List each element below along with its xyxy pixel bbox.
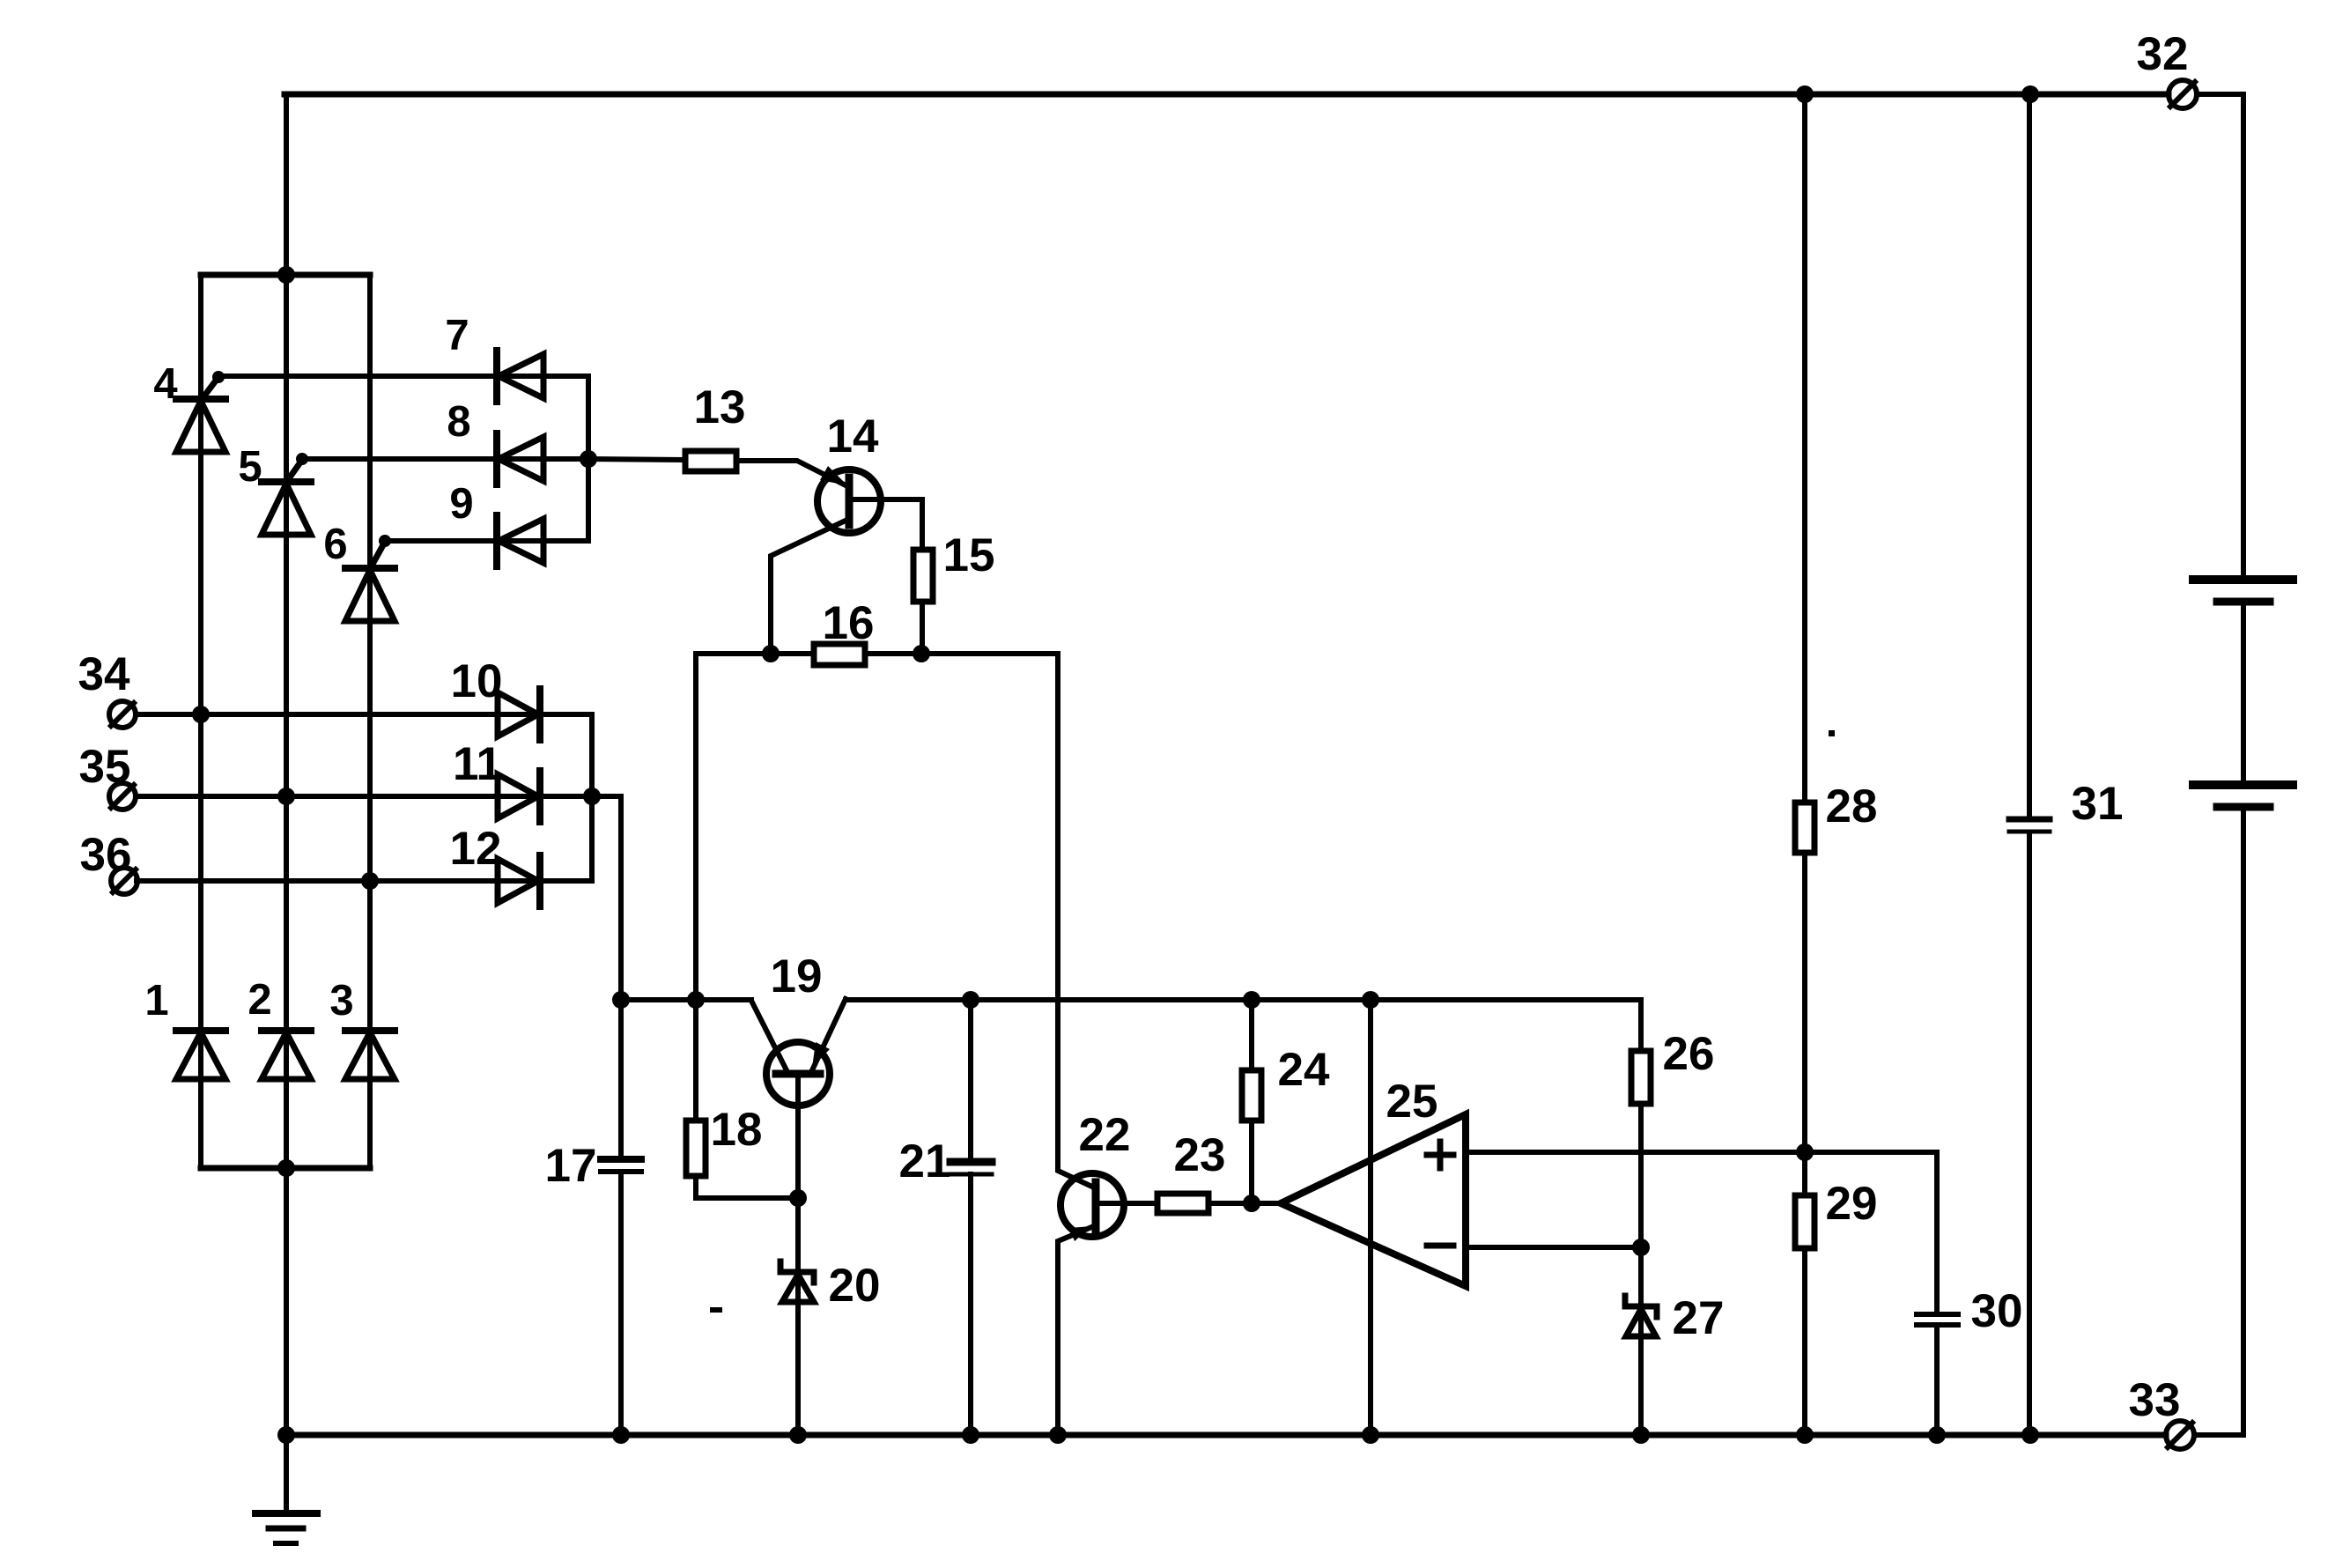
wire bridge top rail bbox=[201, 272, 370, 278]
wire transistor 19 emitter / zener 20 branch bbox=[795, 1074, 801, 1435]
node top bus / resistor 28 bbox=[1796, 85, 1814, 103]
node collector rail / capacitor 21 branch bbox=[962, 991, 979, 1009]
node collector rail / cap 17 branch bbox=[612, 991, 630, 1009]
wire gate row of SCR 6 to diode 9 bbox=[385, 538, 588, 544]
svg-text:12: 12 bbox=[450, 823, 502, 875]
svg-text:21: 21 bbox=[899, 1135, 951, 1187]
svg-text:23: 23 bbox=[1174, 1129, 1226, 1181]
resistor 18 bbox=[686, 1121, 706, 1176]
wire transistor 22 emitter drop to bottom bus bbox=[1058, 1225, 1096, 1435]
svg-text:27: 27 bbox=[1673, 1292, 1725, 1344]
node collector rail / op-amp supply drop bbox=[1362, 991, 1379, 1009]
node collector rail / resistor 24 branch bbox=[1243, 991, 1260, 1009]
wire bottom negative bus bbox=[286, 1432, 2166, 1439]
wire terminal 36 row to diode 12 bbox=[137, 878, 592, 884]
svg-text:8: 8 bbox=[447, 398, 470, 446]
wire resistor 23 to op-amp node bbox=[1208, 1201, 1281, 1206]
wire capacitor 31 branch from top bus bbox=[2027, 94, 2032, 817]
wire capacitor 31 lower lead bbox=[2027, 834, 2032, 1435]
svg-text:25: 25 bbox=[1386, 1076, 1438, 1128]
svg-text:10: 10 bbox=[451, 655, 503, 707]
wire capacitor 30 lower lead bbox=[1934, 1327, 1940, 1435]
wire terminal 32 to battery branch bbox=[2197, 94, 2243, 575]
node bottom bus / capacitor 31 bbox=[2021, 1426, 2039, 1444]
node bottom bus / zener 27 bbox=[1632, 1426, 1650, 1444]
svg-text:19: 19 bbox=[771, 950, 823, 1002]
node diode bus row 8 bbox=[580, 450, 597, 468]
op-amp 25 bbox=[1281, 1114, 1466, 1286]
terminal 36 bbox=[111, 868, 137, 894]
wire bridge negative drop bbox=[284, 1168, 289, 1435]
terminal 34 bbox=[109, 701, 136, 728]
wire battery negative to bottom bus bbox=[2194, 811, 2243, 1435]
zener diode 20 bbox=[780, 1261, 814, 1302]
battery cell lower bbox=[2193, 785, 2293, 807]
wire node to resistor 13 bbox=[588, 459, 685, 460]
svg-text:30: 30 bbox=[1971, 1285, 2023, 1337]
node diode bus row 11 bbox=[583, 788, 601, 805]
wire transistor 14 collector to resistor 15 bbox=[849, 499, 922, 550]
diode 12 bbox=[498, 855, 540, 906]
diode 10 bbox=[498, 689, 540, 740]
capacitor 21 bbox=[950, 1162, 992, 1174]
terminal 32 bbox=[2169, 80, 2197, 108]
node row 16 / transistor 14 emitter bbox=[762, 645, 780, 662]
wire resistor 24 lower lead bbox=[1249, 1121, 1254, 1203]
diode 9 bbox=[497, 515, 543, 566]
terminal 33 bbox=[2166, 1421, 2194, 1449]
resistor 29 bbox=[1795, 1195, 1814, 1248]
svg-text:14: 14 bbox=[827, 410, 879, 462]
diode 11 bbox=[498, 771, 540, 822]
thyristor 6 bbox=[345, 535, 395, 621]
node resistor 23 / resistor 24 / op-amp input bbox=[1243, 1194, 1260, 1212]
wire resistor 15 to node row 16 bbox=[920, 602, 925, 654]
diode 8 bbox=[497, 433, 543, 484]
node terminal 34 row / leg 1 bbox=[192, 706, 210, 723]
wire capacitor 17 lower lead bbox=[618, 1172, 624, 1435]
resistor 15 bbox=[913, 550, 933, 602]
svg-text:28: 28 bbox=[1826, 780, 1878, 832]
svg-text:6: 6 bbox=[323, 521, 347, 568]
resistor 16 bbox=[814, 644, 865, 665]
wire op-amp plus input rail bbox=[1466, 1152, 1937, 1314]
transistor 14 bbox=[817, 466, 881, 533]
wire bridge right leg (phase 3) bbox=[367, 275, 373, 1168]
wire bridge left leg (phase 1) bbox=[198, 275, 203, 1168]
zener diode 27 bbox=[1625, 1296, 1657, 1336]
wire capacitor 21 branch bbox=[968, 1000, 973, 1160]
diode 3 bbox=[345, 1031, 395, 1079]
svg-text:15: 15 bbox=[943, 529, 995, 581]
svg-text:18: 18 bbox=[711, 1104, 763, 1156]
node resistor 18 / zener 20 bbox=[789, 1189, 807, 1207]
wire transistor 22 collector to resistor 23 bbox=[1096, 1201, 1157, 1206]
resistor 23 bbox=[1157, 1194, 1208, 1213]
node bottom bus / resistor 29 bbox=[1796, 1426, 1814, 1444]
svg-text:1: 1 bbox=[144, 977, 168, 1024]
diode 2 bbox=[262, 1031, 311, 1079]
wire resistor 26 to minus node bbox=[1638, 1104, 1644, 1247]
node collector rail / resistor 18 branch bbox=[687, 991, 705, 1009]
node bottom bus / capacitor 30 bbox=[1928, 1426, 1946, 1444]
wire between battery cells bbox=[2241, 606, 2246, 780]
svg-text:2: 2 bbox=[248, 976, 271, 1024]
resistor 13 bbox=[685, 451, 736, 471]
wire terminal 35 row to diode 11 bbox=[137, 794, 592, 799]
speck bbox=[710, 1307, 722, 1313]
resistor 24 bbox=[1242, 1070, 1261, 1121]
wire transistor 19 right arm bbox=[812, 999, 846, 1070]
svg-text:17: 17 bbox=[545, 1140, 597, 1192]
wire gate row of SCR 5 to diode 8 bbox=[302, 456, 588, 462]
wire resistor 13 to transistor 14 base bbox=[736, 461, 849, 487]
svg-text:29: 29 bbox=[1826, 1178, 1878, 1230]
wire resistor 18 branch upper bbox=[693, 654, 698, 1121]
svg-text:33: 33 bbox=[2129, 1374, 2181, 1426]
resistor 28 bbox=[1795, 802, 1814, 853]
transistor 19 bbox=[766, 1042, 830, 1106]
node bridge top rail bbox=[277, 266, 295, 284]
svg-text:7: 7 bbox=[445, 312, 469, 359]
node bottom bus / op-amp supply bbox=[1362, 1426, 1379, 1444]
wire op-amp supply drop bbox=[1368, 1000, 1373, 1435]
wire resistor 26 branch bbox=[1638, 1000, 1644, 1051]
terminal 35 bbox=[109, 783, 136, 810]
node bottom bus / capacitor 21 bbox=[962, 1426, 979, 1444]
node bottom bus / transistor 22 emitter bbox=[1049, 1426, 1067, 1444]
wire resistor 28 branch from top bus bbox=[1802, 94, 1807, 802]
wire diode bus to capacitor 17 branch bbox=[592, 796, 621, 1159]
diode 7 bbox=[497, 351, 543, 402]
wire op-amp minus input rail bbox=[1466, 1245, 1641, 1250]
svg-text:24: 24 bbox=[1278, 1044, 1330, 1096]
node plus rail / resistor 28-29 bbox=[1796, 1143, 1814, 1161]
node bottom bus / zener 20 bbox=[789, 1426, 807, 1444]
wire bridge bottom rail bbox=[201, 1165, 370, 1172]
svg-text:35: 35 bbox=[79, 741, 131, 793]
wire resistor 28 to plus node bbox=[1802, 853, 1807, 1195]
svg-text:11: 11 bbox=[453, 738, 502, 790]
svg-text:32: 32 bbox=[2137, 28, 2189, 80]
svg-text:36: 36 bbox=[80, 829, 132, 881]
node bottom bus / capacitor 17 bbox=[612, 1426, 630, 1444]
wire resistor 24 branch bbox=[1249, 1000, 1254, 1070]
svg-text:9: 9 bbox=[449, 480, 473, 528]
wire terminal 34 row to diode 10 bbox=[137, 712, 592, 717]
svg-text:22: 22 bbox=[1079, 1109, 1131, 1161]
capacitor 31 bbox=[2009, 819, 2050, 832]
wire capacitor 21 lower lead bbox=[968, 1174, 973, 1435]
transistor 22 bbox=[1060, 1173, 1124, 1241]
node minus rail / resistor 26 / zener 27 bbox=[1632, 1239, 1650, 1256]
svg-text:4: 4 bbox=[153, 360, 177, 408]
wire node horizontal rail right part bbox=[846, 997, 1641, 1002]
wire ground stem bbox=[284, 1435, 289, 1513]
capacitor 17 bbox=[601, 1159, 641, 1172]
wire right bus joining diodes 7,8,9 bbox=[586, 376, 591, 541]
svg-text:16: 16 bbox=[823, 597, 875, 649]
wire transistor 14 emitter to node row 16 bbox=[771, 519, 849, 654]
node bottom bus / bridge drop bbox=[277, 1426, 295, 1444]
node terminal 35 row / leg 2 bbox=[277, 788, 295, 805]
wire node horizontal rail left part bbox=[621, 997, 751, 1002]
wire middle bridge leg (phase 2 leg up to top bus) bbox=[284, 94, 289, 1168]
wire resistor 29 lower lead bbox=[1802, 1248, 1807, 1435]
capacitor 30 bbox=[1917, 1314, 1958, 1325]
svg-text:20: 20 bbox=[829, 1260, 881, 1312]
wire row 16 right drop to transistor 22 bbox=[1058, 654, 1096, 1188]
svg-text:31: 31 bbox=[2072, 778, 2124, 830]
ground bbox=[255, 1513, 317, 1543]
diode 1 bbox=[176, 1031, 225, 1079]
wire top positive bus bbox=[285, 92, 2169, 98]
wire transistor 19 left arm bbox=[751, 1001, 787, 1070]
node row 16 / resistor 15 bbox=[913, 645, 930, 662]
node top bus / capacitor 31 bbox=[2021, 85, 2039, 103]
resistor 26 bbox=[1631, 1051, 1651, 1104]
battery cell upper bbox=[2193, 580, 2293, 602]
thyristor 5 bbox=[262, 453, 311, 535]
node terminal 36 row / leg 3 bbox=[361, 872, 379, 890]
wire gate row of SCR 4 to diode 7 bbox=[218, 374, 588, 379]
svg-text:26: 26 bbox=[1663, 1028, 1715, 1080]
svg-text:13: 13 bbox=[694, 381, 746, 433]
wire zener 27 branch bbox=[1638, 1247, 1644, 1435]
node bridge bottom rail bbox=[277, 1159, 295, 1177]
wire right bus joining diodes 10,11,12 bbox=[589, 714, 595, 881]
thyristor 4 bbox=[176, 371, 225, 452]
svg-text:5: 5 bbox=[238, 443, 262, 491]
wire resistor 18 lower to zener node bbox=[696, 1176, 798, 1198]
wire row of resistor 16 bbox=[696, 651, 1058, 656]
speck bbox=[1829, 730, 1835, 736]
svg-text:34: 34 bbox=[78, 648, 130, 700]
svg-text:3: 3 bbox=[329, 977, 353, 1024]
